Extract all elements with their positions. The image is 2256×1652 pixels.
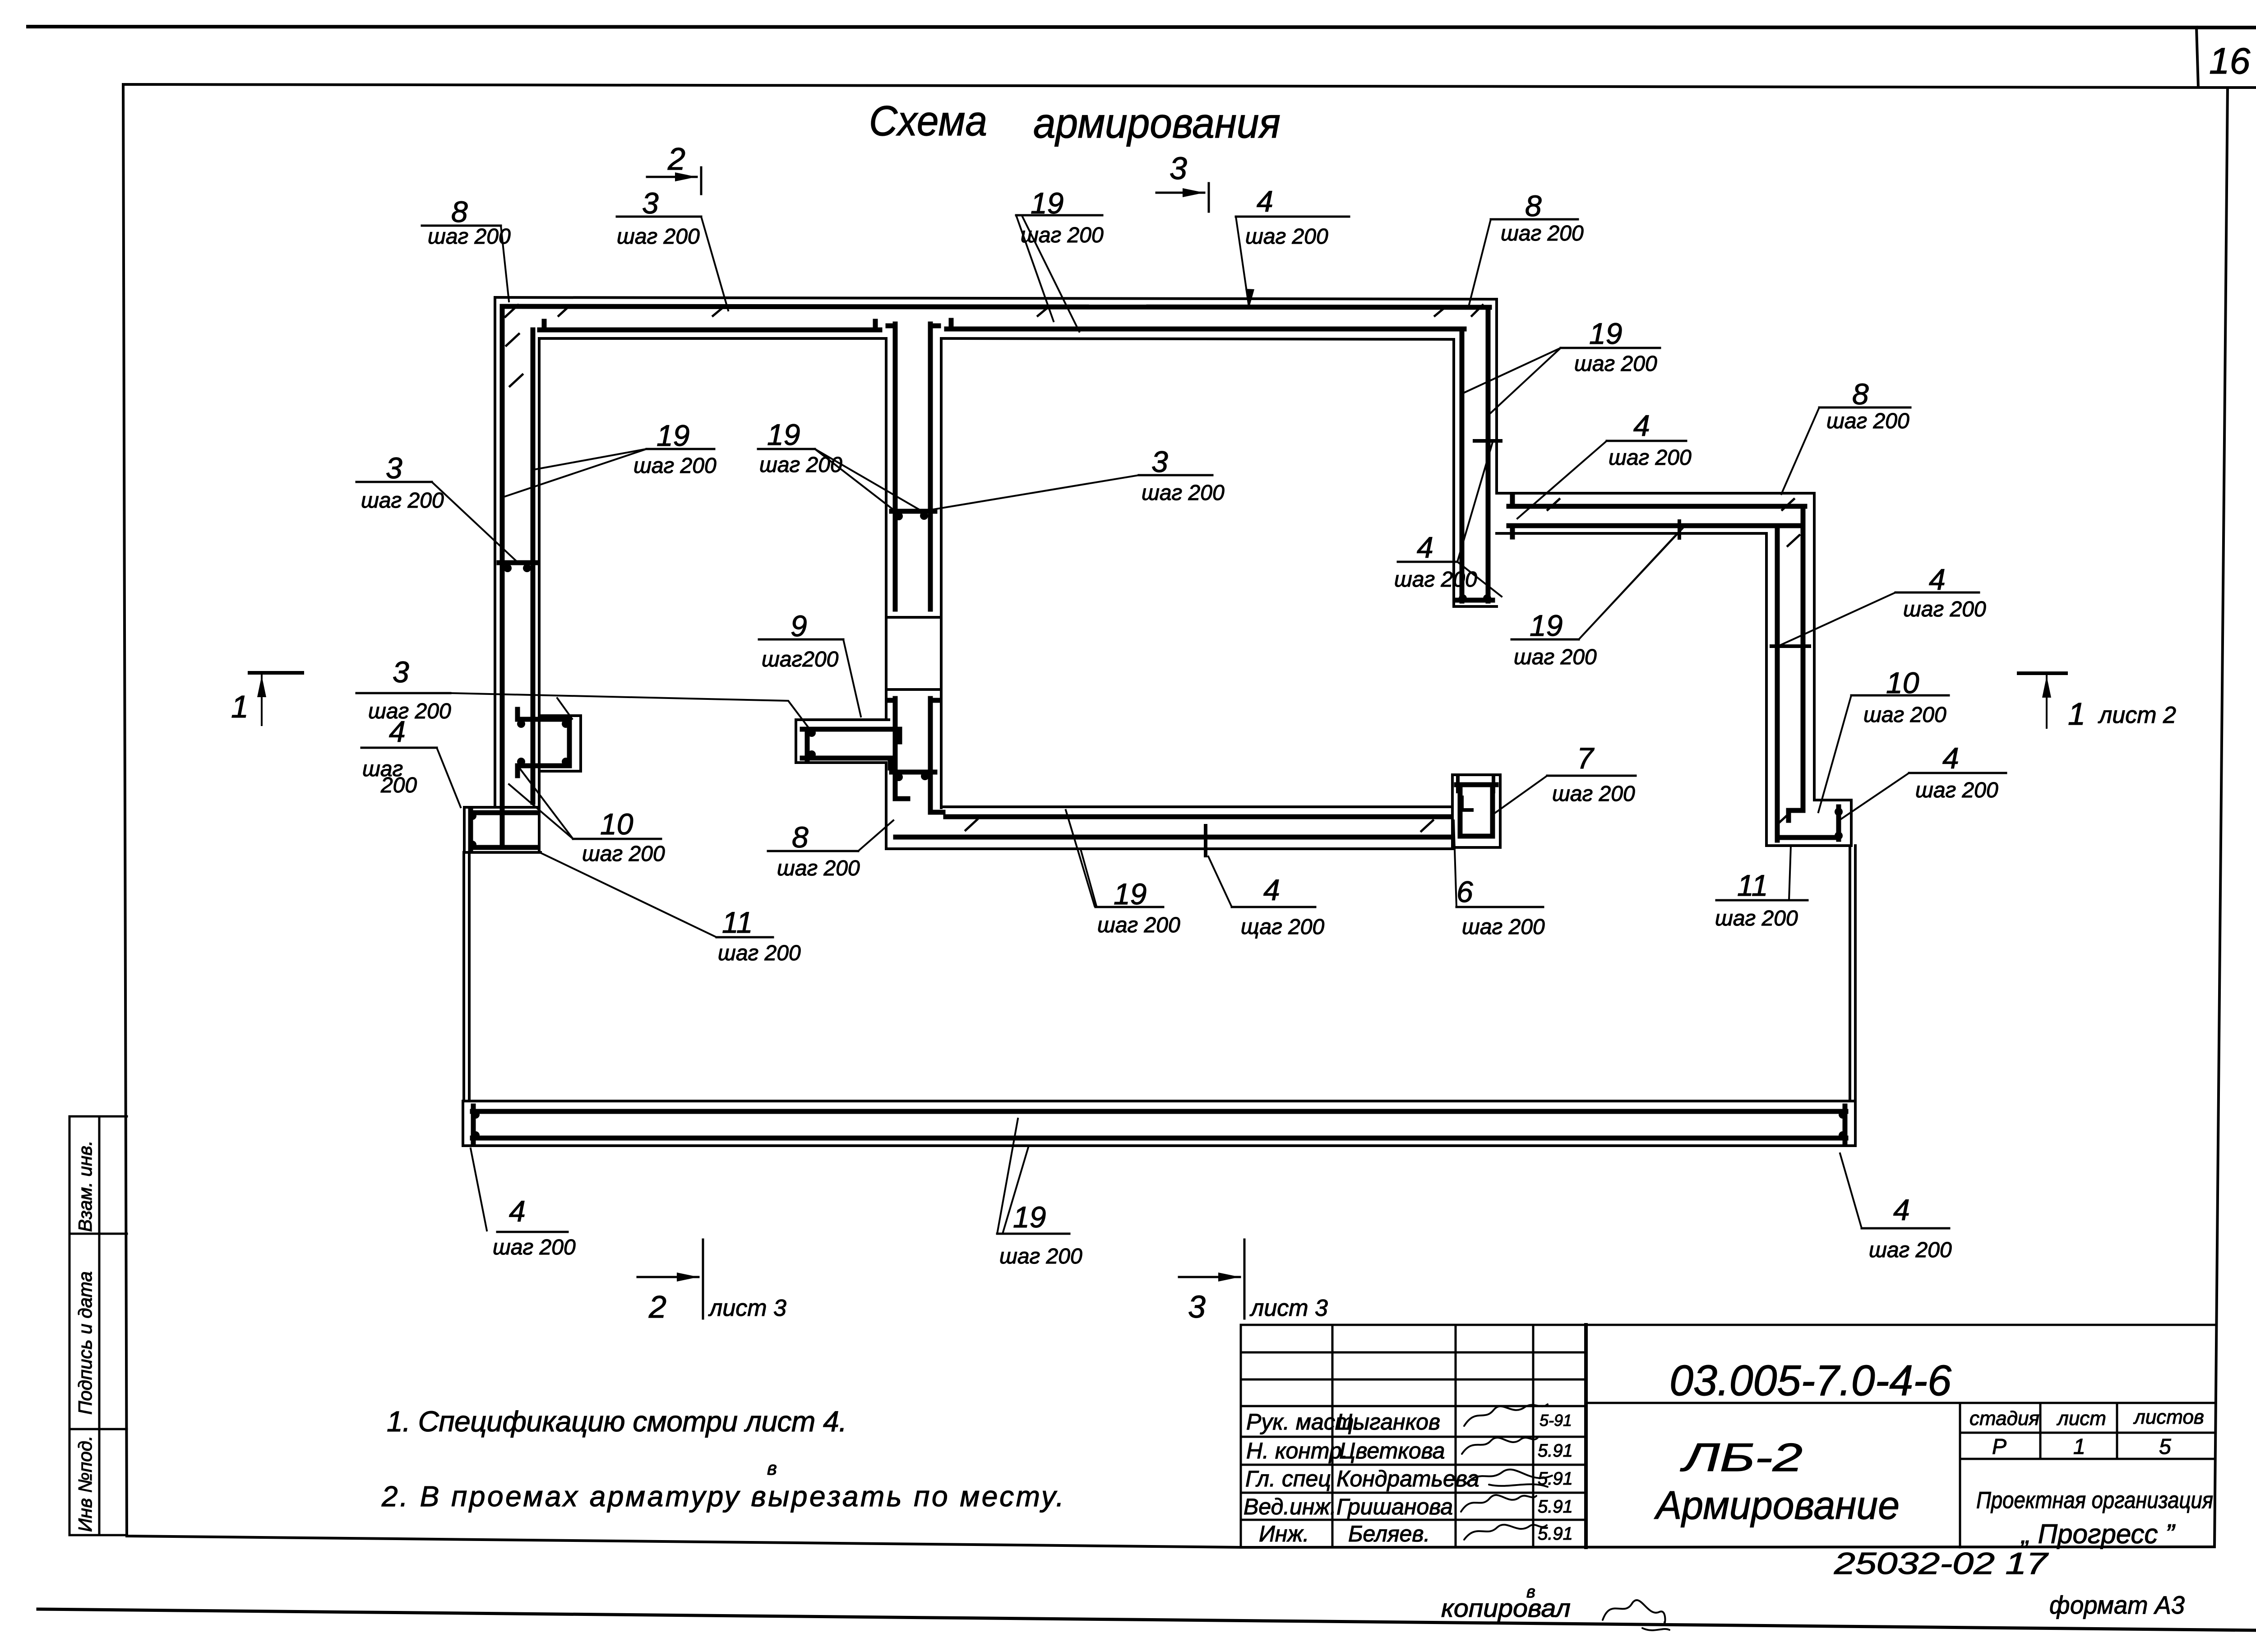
leader label 19 below center (1579, 528, 1683, 639)
dot W5 cap b (1483, 594, 1491, 602)
rebar partition tie1 (892, 509, 935, 514)
wall W2 left outer face (494, 297, 496, 807)
corner hatch marks top right (1435, 305, 1483, 316)
underline 6 (1456, 906, 1543, 908)
dot beam b (472, 1131, 480, 1139)
left closet outline (464, 807, 541, 852)
svg-text:шаг 200: шаг 200 (633, 454, 717, 478)
svg-text:19: 19 (656, 419, 689, 452)
svg-text:8: 8 (1852, 377, 1869, 411)
leader label 19 beam (997, 1119, 1029, 1234)
rebar beam right tick (1843, 1106, 1848, 1143)
underline 4 bottom wall (1232, 906, 1315, 908)
underline 3 room2 (1139, 474, 1212, 477)
svg-text:10: 10 (600, 807, 633, 841)
svg-text:19: 19 (1031, 186, 1063, 220)
underline 11 left (717, 936, 773, 939)
svg-text:шаг 200: шаг 200 (1903, 597, 1986, 621)
svg-text:4: 4 (1893, 1193, 1910, 1226)
svg-text:шаг 200: шаг 200 (718, 941, 801, 965)
rebar pier9 bottom bar (802, 758, 890, 768)
leader label 4 stacked left (437, 748, 461, 807)
svg-text:9: 9 (791, 609, 807, 643)
svg-text:„ Прогресс ”: „ Прогресс ” (2020, 1519, 2176, 1549)
rebar pier P1 bottom bar (518, 766, 569, 776)
svg-text:8: 8 (451, 195, 468, 228)
rebar left wall outer (500, 306, 505, 845)
svg-text:шаг 200: шаг 200 (1394, 568, 1477, 592)
svg-text:шаг 200: шаг 200 (368, 699, 451, 723)
svg-text:5: 5 (2159, 1435, 2171, 1459)
rebar left closet top bar (471, 810, 536, 815)
rebar W5 tick (1475, 439, 1501, 443)
svg-text:шаг200: шаг200 (762, 648, 839, 671)
svg-text:Вед.инж.: Вед.инж. (1244, 1494, 1336, 1519)
signature row4 (1461, 1495, 1536, 1512)
rebar step wall top with hook (1509, 496, 1805, 506)
dot pier P1 d (562, 758, 570, 766)
right closet outline (1766, 800, 1851, 846)
svg-text:шаг 200: шаг 200 (1863, 703, 1946, 727)
svg-text:Р: Р (1992, 1435, 2006, 1459)
wall W7 right outer face (1813, 493, 1816, 800)
rebar pier P2 hook (1462, 797, 1472, 810)
rebar partition left lower (888, 699, 908, 799)
svg-text:Гришанова: Гришанова (1336, 1494, 1453, 1519)
underline 4 W5 (1398, 561, 1457, 563)
svg-text:16: 16 (2209, 41, 2251, 82)
leader label 19 bottom wall (1066, 810, 1096, 906)
svg-text:7: 7 (1577, 741, 1595, 775)
section mark 2 bottom (638, 1240, 786, 1324)
svg-text:шаг 200: шаг 200 (777, 856, 860, 880)
underline 8 top-right (1491, 218, 1578, 221)
underline 19 right (1561, 347, 1660, 349)
arrowhead leader 4 top (1245, 289, 1254, 309)
rebar right wall inner (1775, 526, 1780, 840)
svg-text:шаг 200: шаг 200 (1574, 352, 1657, 376)
titleblock verticals left table (1332, 1325, 1533, 1547)
svg-text:шаг 200: шаг 200 (1869, 1238, 1952, 1262)
svg-text:шаг 200: шаг 200 (1462, 915, 1545, 939)
titleblock thick divider (1584, 1325, 1588, 1547)
svg-text:шаг 200: шаг 200 (582, 842, 665, 866)
signature row1 (1464, 1404, 1548, 1426)
pier P1 outline (539, 716, 581, 771)
svg-text:ЛБ-2: ЛБ-2 (1680, 1435, 1803, 1480)
rebar left closet bottom bar (471, 845, 536, 850)
wall W2 left inner face (538, 338, 541, 807)
svg-text:1: 1 (2073, 1435, 2085, 1459)
svg-text:4: 4 (509, 1194, 526, 1228)
titleblock outer (1241, 1325, 2215, 1547)
svg-text:Инж.: Инж. (1259, 1521, 1309, 1546)
svg-text:Взам. инв.: Взам. инв. (74, 1140, 96, 1232)
svg-text:шаг 200: шаг 200 (999, 1245, 1082, 1268)
titleblock doc number underline (1586, 1402, 2215, 1404)
svg-text:1: 1 (2068, 696, 2085, 731)
rebar pier P1 top bar (518, 709, 569, 719)
underline 8 far right (1819, 407, 1910, 409)
dot beam c (1839, 1111, 1847, 1119)
underline 19 room1 left (647, 448, 714, 450)
dot W5 cap a (1459, 594, 1467, 602)
signature row5 (1464, 1525, 1547, 1540)
svg-text:3: 3 (1151, 445, 1168, 478)
wall W6 step top face (1497, 492, 1814, 495)
leader label 4 top (1236, 217, 1249, 307)
svg-text:шаг 200: шаг 200 (1514, 645, 1597, 669)
underline 11 right (1716, 899, 1808, 902)
svg-text:в: в (1526, 1583, 1535, 1601)
underline 4 beam left (497, 1231, 568, 1233)
svg-text:Схема: Схема (869, 97, 987, 144)
dot pier9 b (808, 750, 816, 759)
rebar beam left tick (471, 1106, 476, 1143)
rebar bottom wall bottom (896, 835, 1449, 840)
rebar bottom wall top (946, 814, 1449, 819)
leader label 10 left (509, 768, 573, 839)
underline 19 below center (1512, 639, 1579, 641)
leader label 4 beam left (471, 1148, 487, 1231)
underline 10 right (1851, 694, 1949, 697)
leader label 4 W5 (1457, 442, 1502, 597)
underline 19 bottom wall (1096, 906, 1163, 908)
underline 19 top (1016, 214, 1102, 217)
svg-text:4: 4 (1263, 873, 1280, 907)
svg-text:формат А3: формат А3 (2049, 1591, 2185, 1619)
leader label 3 long left (450, 693, 808, 727)
dot right closet b (1835, 832, 1843, 840)
rebar bottom wall tick (1204, 826, 1207, 856)
underline 4 upper right (1895, 592, 1979, 594)
rebar partition left upper (888, 324, 895, 609)
svg-text:03.005-7.0-4-6: 03.005-7.0-4-6 (1669, 1356, 1952, 1405)
svg-text:шаг 200: шаг 200 (759, 453, 842, 477)
leader label 19 room1 left (505, 449, 647, 496)
dot beam d (1839, 1131, 1847, 1139)
rebar left closet end bar (468, 810, 473, 850)
underline 19 room1 right (758, 448, 815, 450)
svg-text:Кондратьева: Кондратьева (1336, 1466, 1479, 1491)
titleblock stage table (1960, 1403, 2214, 1547)
svg-text:4: 4 (1633, 409, 1650, 442)
dot left wall tie b (523, 564, 531, 572)
rebar left wall inner (531, 330, 536, 802)
svg-text:1. Спецификацию смотри лист: 1. Спецификацию смотри лист 4. (387, 1405, 847, 1438)
leader label 19 right (1462, 348, 1561, 413)
corner hatch marks top left (505, 305, 569, 386)
dot pier P1 c (517, 758, 525, 766)
dot left wall tie a (504, 564, 512, 572)
rebar right wall tick (1771, 644, 1809, 648)
leader label 4 upper right (1780, 592, 1895, 645)
svg-text:шаг 200: шаг 200 (1715, 907, 1798, 930)
svg-text:Армирование: Армирование (1654, 1483, 1900, 1527)
svg-text:4: 4 (1417, 531, 1433, 564)
svg-text:5-91: 5-91 (1539, 1411, 1572, 1430)
svg-text:19: 19 (767, 418, 800, 451)
corner hatch bottom right (1778, 813, 1789, 824)
svg-text:шаг 200: шаг 200 (428, 225, 511, 249)
svg-text:в: в (767, 1458, 777, 1479)
rebar partition right lower (930, 699, 943, 812)
underline 8 mid-bottom (768, 850, 858, 852)
rebar right wall outer (1789, 506, 1803, 820)
svg-text:3: 3 (393, 655, 409, 689)
rebar pier P1 right bar (567, 719, 572, 766)
pier P2 outline (1452, 775, 1500, 847)
underline 4 stacked left (361, 747, 437, 749)
dot partition tie2 b (921, 772, 929, 780)
leader label 19 top (1016, 215, 1079, 332)
svg-text:10: 10 (1886, 666, 1919, 699)
svg-text:армирования: армирования (1033, 99, 1281, 147)
rebar right closet bottom bar (1778, 835, 1839, 840)
rebar beam bottom (472, 1136, 1846, 1141)
svg-text:Н. контр.: Н. контр. (1246, 1438, 1348, 1463)
svg-text:4: 4 (1929, 563, 1946, 596)
underline 10 left (573, 838, 661, 840)
svg-text:8: 8 (1525, 189, 1542, 222)
svg-text:лист 3: лист 3 (708, 1295, 786, 1321)
leader label 6 (1454, 820, 1456, 907)
left column outer box (69, 1116, 99, 1535)
svg-text:стадия: стадия (1969, 1407, 2039, 1430)
svg-text:11: 11 (1737, 869, 1768, 902)
corner hatch step (1548, 499, 1799, 546)
rebar W5 right (1486, 307, 1491, 601)
svg-text:шаг 200: шаг 200 (1915, 778, 1998, 802)
rebar pier P2 tick ends (1458, 778, 1493, 791)
svg-text:Проектная организация: Проектная организация (1976, 1487, 2213, 1513)
wall W4 room2 bottom faces (886, 807, 1452, 849)
svg-text:шаг 200: шаг 200 (1552, 782, 1635, 806)
underline 4 beam right (1862, 1227, 1949, 1230)
wall W7 right inner face (1765, 533, 1768, 800)
dot pier9 a (808, 729, 816, 737)
sheet top scan edge (28, 27, 2256, 28)
svg-text:шаг 200: шаг 200 (1097, 913, 1180, 937)
rebar partition right upper (930, 324, 938, 609)
dot left closet b (468, 841, 476, 849)
leader label 11 right (1789, 846, 1791, 900)
svg-text:лист 3: лист 3 (1249, 1295, 1328, 1321)
leader label 3 room1 (432, 482, 517, 561)
section mark 2 top (647, 141, 701, 194)
svg-text:5.91: 5.91 (1538, 1441, 1573, 1461)
signature row2 (1462, 1438, 1538, 1454)
corner hatch bottom wall (966, 819, 1433, 831)
svg-text:шаг 200: шаг 200 (361, 489, 444, 513)
underline 19 beam (997, 1233, 1069, 1235)
svg-text:лист: лист (2056, 1407, 2106, 1430)
dot right closet a (1835, 808, 1843, 816)
leader label 8 mid-bottom (858, 820, 893, 851)
underline 3 room1 (356, 481, 432, 483)
rebar step wall tick (1678, 521, 1681, 538)
svg-text:листов: листов (2133, 1406, 2204, 1428)
svg-text:копировал: копировал (1441, 1594, 1571, 1622)
svg-text:19: 19 (1530, 609, 1563, 642)
rebar left wall tie (499, 560, 538, 565)
underline 8 top-left (422, 225, 501, 227)
lower region left edge double line (464, 852, 469, 1101)
svg-text:8: 8 (792, 820, 809, 854)
svg-text:1: 1 (231, 689, 249, 724)
rebar top wall inner room2 with hooks (947, 320, 1464, 344)
svg-text:3: 3 (1188, 1289, 1206, 1324)
leader label 7 (1493, 776, 1547, 814)
dot beam a (472, 1111, 480, 1119)
svg-text:6: 6 (1456, 875, 1473, 908)
titleblock rows left (1241, 1352, 1586, 1520)
section mark 3 bottom (1179, 1240, 1328, 1324)
wall W1 inner face room2 (941, 338, 1454, 339)
wall W5 vertical faces (1454, 299, 1497, 606)
svg-text:шаг 200: шаг 200 (1021, 223, 1104, 247)
wall W3 door opening lines (886, 617, 941, 689)
section mark 1 right (2019, 673, 2176, 731)
svg-text:2: 2 (648, 1289, 666, 1324)
wall W1 top outer face (495, 297, 1497, 299)
page number box (2196, 27, 2198, 87)
svg-text:Подпись и дата: Подпись и дата (74, 1271, 96, 1415)
rebar W5 bottom tie (1456, 598, 1493, 603)
leader label 11 left (539, 852, 717, 937)
svg-text:шаг 200: шаг 200 (1501, 222, 1584, 245)
svg-text:3: 3 (386, 451, 402, 485)
underline 9 (759, 639, 843, 641)
rebar W5 left (1460, 344, 1465, 601)
leader label 10 right (1818, 695, 1851, 812)
leader label 9 (843, 639, 861, 717)
leader label 8 top-left (501, 226, 509, 301)
wall W3 partition faces (886, 338, 941, 849)
signature row3 (1466, 1469, 1552, 1487)
lower region right edge double line (1850, 846, 1855, 1101)
rebar top wall outer (502, 306, 1489, 307)
beam W8 outline (463, 1101, 1855, 1146)
underline 4 center (1607, 440, 1686, 442)
rebar pier9 left bar (805, 729, 810, 760)
sheet bottom scan edge (38, 1609, 2256, 1630)
dot pier P1 b (562, 720, 570, 728)
wall W6 step inner face (1497, 532, 1766, 535)
leader label 8 far right (1781, 407, 1819, 494)
rebar partition tie2 (892, 770, 935, 775)
underline 4 lower right (1909, 772, 2006, 774)
leader label 8 top-right (1469, 219, 1491, 305)
svg-text:5.91: 5.91 (1538, 1497, 1573, 1517)
rebar beam top (472, 1109, 1846, 1114)
svg-text:лист 2: лист 2 (2098, 702, 2176, 728)
rebar pier9 top bar (802, 729, 900, 742)
dot partition tie1 b (920, 512, 928, 520)
svg-text:Цветкова: Цветкова (1339, 1438, 1445, 1463)
rebar step wall bottom with hook (1509, 526, 1800, 537)
underline 4 top (1236, 216, 1349, 218)
svg-text:4: 4 (1942, 741, 1959, 775)
svg-text:4: 4 (389, 715, 406, 748)
svg-text:200: 200 (380, 773, 417, 797)
dot partition tie1 a (895, 512, 903, 520)
svg-text:Гл. спец: Гл. спец (1245, 1466, 1331, 1491)
leader label 4 lower right (1838, 773, 1909, 821)
svg-text:4: 4 (1257, 185, 1273, 218)
svg-text:шаг 200: шаг 200 (1609, 446, 1692, 470)
dot partition tie2 a (895, 773, 903, 781)
leader label 3 top (701, 217, 728, 310)
svg-text:19: 19 (1589, 317, 1622, 350)
svg-text:19: 19 (1114, 877, 1146, 911)
leader label 3 room2 (928, 475, 1139, 510)
section mark 1 left (231, 673, 302, 725)
corner hatch marks top mid (713, 307, 1049, 316)
svg-text:шаг 200: шаг 200 (617, 225, 700, 249)
dot pier P1 a (517, 720, 525, 728)
dot left closet a (468, 812, 476, 820)
section mark 3 top (1156, 151, 1209, 212)
svg-text:шаг 200: шаг 200 (1826, 409, 1909, 433)
svg-text:шаг 200: шаг 200 (493, 1236, 576, 1259)
leader label 19 room1 right (815, 449, 921, 511)
svg-text:щаг 200: щаг 200 (1241, 915, 1324, 939)
leader label 4 center (1517, 441, 1607, 518)
leader label 4 bottom wall (1208, 856, 1232, 907)
signature копировал (1603, 1600, 1669, 1630)
svg-text:25032-02 17: 25032-02 17 (1834, 1546, 2049, 1581)
pier 9 outline (796, 720, 889, 763)
rebar right closet end bar (1836, 807, 1841, 839)
underline 3 long left (356, 692, 450, 694)
svg-text:19: 19 (1013, 1200, 1046, 1234)
underline 3 top (617, 216, 701, 218)
rebar pier P2 box (1456, 785, 1496, 836)
svg-text:11: 11 (722, 906, 753, 939)
svg-text:Беляев.: Беляев. (1348, 1521, 1430, 1546)
wall W1 inner face room1 (539, 337, 886, 340)
svg-text:Цыганков: Цыганков (1336, 1409, 1440, 1435)
svg-text:шаг 200: шаг 200 (1245, 225, 1328, 249)
svg-text:шаг 200: шаг 200 (1142, 481, 1225, 505)
svg-text:2: 2 (667, 141, 685, 176)
svg-text:3: 3 (1170, 151, 1187, 186)
leader label 4 beam right (1840, 1153, 1862, 1228)
rebar top wall inner room1 with hooks (540, 321, 880, 330)
underline 7 (1547, 775, 1636, 777)
svg-text:Инв №под.: Инв №под. (74, 1435, 96, 1532)
svg-text:3: 3 (642, 186, 659, 220)
